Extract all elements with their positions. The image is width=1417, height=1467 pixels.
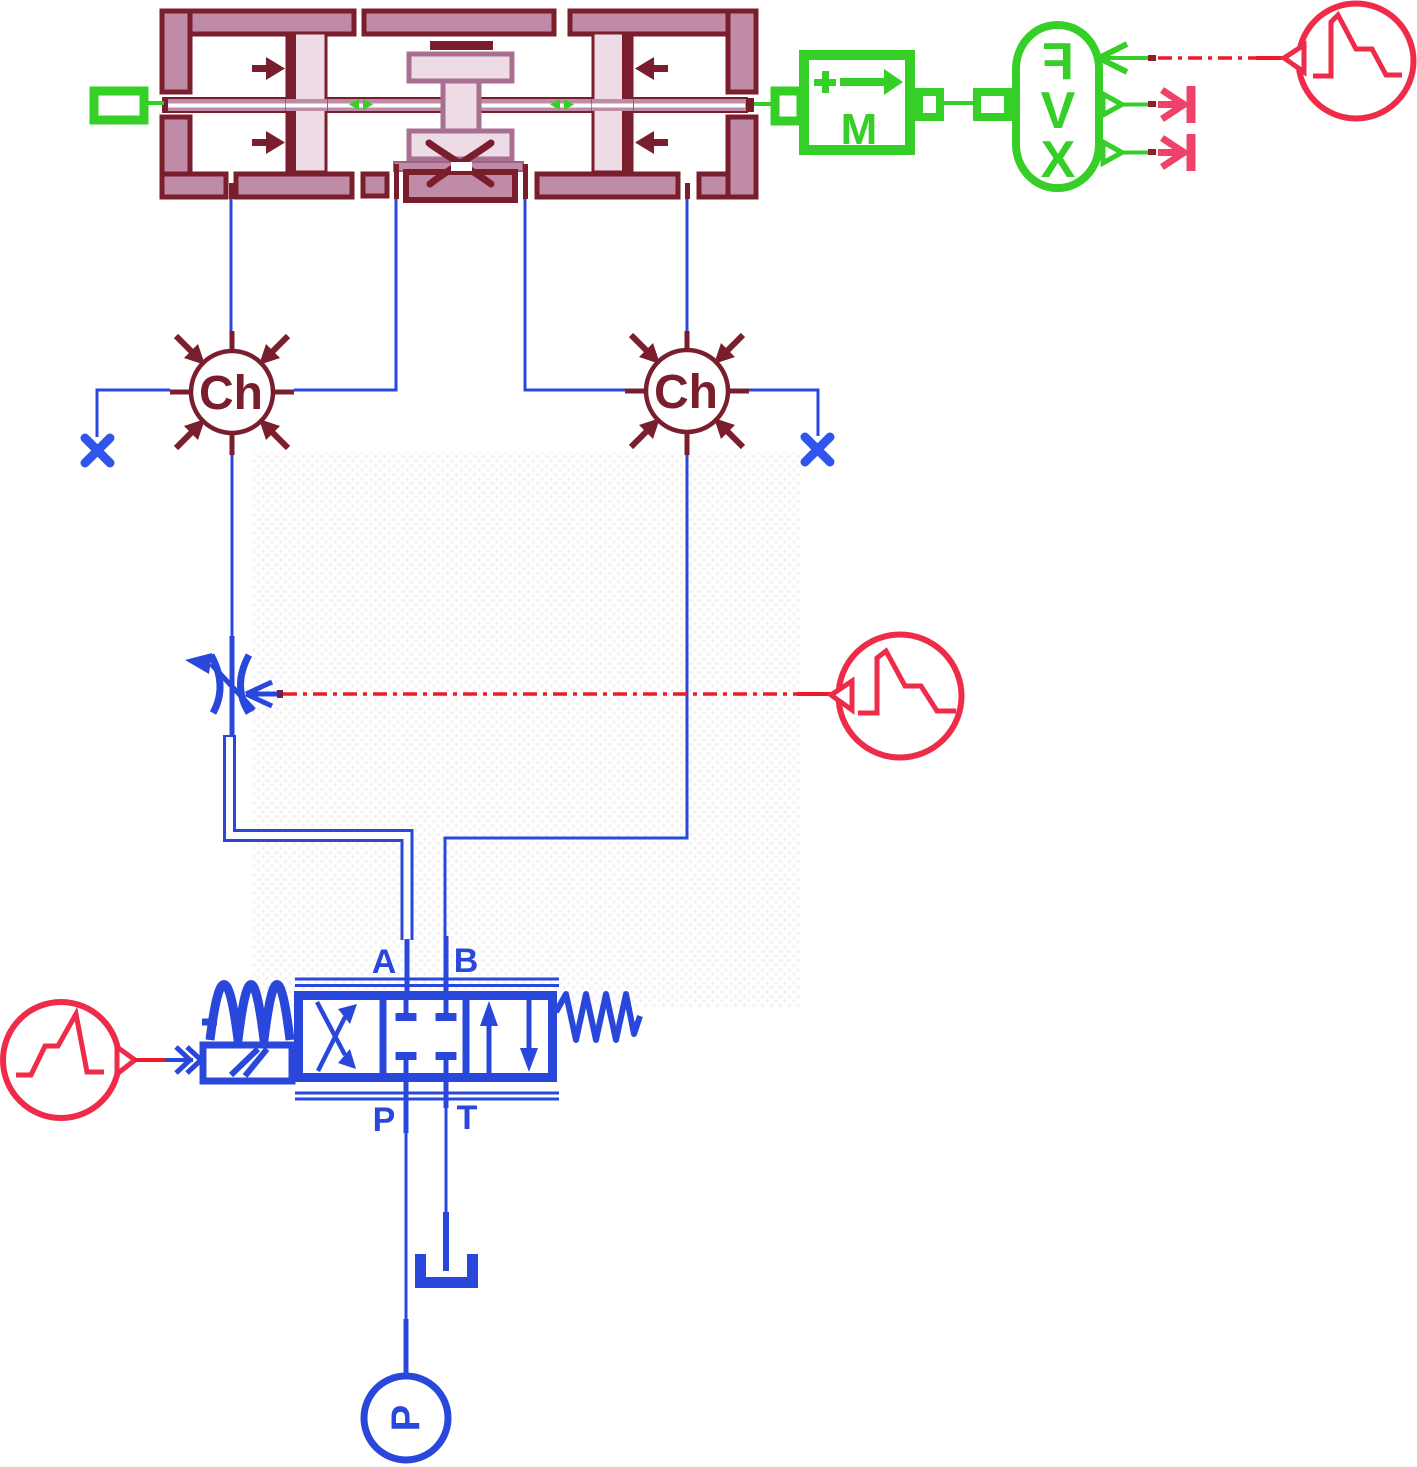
cylinder top wall left segment <box>162 11 354 34</box>
cylinder left wall upper <box>162 11 190 92</box>
valve left square crossed arrows <box>317 1002 357 1071</box>
chamber arrow right-lower <box>635 131 668 154</box>
green link line right <box>754 102 776 106</box>
svg-text:Ch: Ch <box>199 367 263 420</box>
throttle center line <box>230 636 235 737</box>
Ch2 corner arrows <box>631 335 743 447</box>
rod-spool link marker left (green) <box>349 99 373 110</box>
plus sign <box>814 79 836 86</box>
svg-text:Ch: Ch <box>654 366 718 419</box>
cylinder top wall center segment <box>364 11 554 34</box>
force signal dash-dot wire <box>1158 56 1286 60</box>
force input line <box>1103 56 1152 60</box>
wire T down from valve <box>444 1078 449 1271</box>
chamber arrow right-upper <box>635 57 668 80</box>
rod end cap right <box>747 98 754 112</box>
signal terminator arrow V (red) <box>1158 86 1191 123</box>
wire Ch2 right stub to plug <box>749 390 818 436</box>
piston rod left outer <box>163 98 287 112</box>
X output line <box>1122 151 1152 155</box>
wire port3 down and right to Ch2 left stub <box>525 199 640 390</box>
valve left spring <box>202 985 290 1041</box>
wire B thick end into valve <box>444 936 449 1014</box>
signal terminator arrow X (red) <box>1158 134 1191 171</box>
cylinder top wall right segment <box>570 11 755 34</box>
nozzle collector box <box>406 172 515 200</box>
wire A into valve <box>405 939 410 1014</box>
valve right square straight arrows <box>480 1000 538 1073</box>
V output port triangle <box>1103 94 1122 115</box>
wire port1 to chamber Ch1 <box>230 199 233 331</box>
cylinder port stub 1 <box>229 183 234 199</box>
mass block body <box>804 55 910 150</box>
X output port triangle <box>1103 142 1122 163</box>
central spool (I-beam flapper) <box>409 54 512 159</box>
rod-spool link marker right (green) <box>550 99 574 110</box>
pressure source P circle <box>364 1376 448 1460</box>
hydraulic plug left (blue X) <box>85 438 110 463</box>
wire Ch1 left stub to plug <box>97 390 170 437</box>
mass port stub right <box>919 92 940 117</box>
svg-text:P: P <box>373 1101 396 1139</box>
cylinder bottom wall center-right piece <box>537 174 678 197</box>
wire P down from valve <box>404 1078 409 1376</box>
cylinder bottom wall left piece b <box>236 174 352 197</box>
cylinder left wall lower <box>162 117 190 197</box>
svg-text:T: T <box>457 1099 478 1137</box>
force input arrowhead <box>1099 44 1127 72</box>
hydraulic plug right (blue X) <box>805 437 830 462</box>
left piston <box>287 33 326 172</box>
throttle signal dash-dot wire <box>283 692 833 696</box>
throttle source port triangle <box>831 681 852 710</box>
velocity arrow <box>840 78 886 86</box>
chamber arrow left-lower <box>252 131 285 154</box>
cylinder right wall upper <box>728 11 756 92</box>
throttle right arc <box>241 655 250 713</box>
nozzle cross curves <box>429 143 491 184</box>
nozzle pinch white gap <box>451 162 472 171</box>
piston rod left inner (piston to spool) <box>326 98 443 112</box>
cylinder bottom wall left piece a <box>162 174 226 197</box>
central spool stop bar <box>430 41 493 50</box>
rod end cap left <box>163 98 168 112</box>
svg-text:A: A <box>372 943 397 981</box>
svg-text:X: X <box>1041 131 1076 189</box>
piston rod right outer <box>632 98 747 112</box>
throttle variable arrow <box>211 664 254 710</box>
signal tip dark <box>277 690 283 698</box>
green link line left <box>148 101 164 105</box>
cylinder port stub 4 <box>685 183 690 199</box>
sensor port stub <box>977 92 1008 117</box>
valve body <box>299 996 553 1078</box>
svg-text:P: P <box>384 1405 428 1432</box>
displacement sensor square right (green) <box>775 91 801 121</box>
collector left channel edge <box>394 164 399 199</box>
throttle signal arrowhead <box>246 682 281 706</box>
displacement sensor square left (green) <box>94 91 144 120</box>
valve pilot box <box>203 1045 292 1081</box>
wire port4 to chamber Ch2 <box>686 199 689 331</box>
dark tip top <box>1148 55 1156 61</box>
V output line <box>1122 103 1152 107</box>
right piston <box>593 33 632 172</box>
sensor body <box>1016 25 1099 188</box>
Ch1 stubs <box>170 331 294 455</box>
valve infinite-position rails bottom <box>295 1093 559 1099</box>
rod passing over pistons <box>286 99 633 111</box>
wire port2 down and left to Ch1 right stub <box>294 199 396 390</box>
cylinder bottom wall small square <box>363 174 387 196</box>
chamber arrow left-upper <box>252 57 285 80</box>
throttle left arc <box>211 655 220 713</box>
valve source port triangle <box>117 1047 135 1074</box>
Ch1 circle <box>191 351 273 433</box>
pilot box slashes <box>231 1049 267 1076</box>
tank symbol <box>415 1254 478 1288</box>
background speckle watermark <box>253 452 801 1008</box>
pilot input arrow <box>163 1058 193 1062</box>
Ch2 stubs <box>625 331 749 455</box>
link line <box>944 101 974 105</box>
svg-text:B: B <box>454 942 479 980</box>
valve right spring <box>556 994 640 1040</box>
valve dividers <box>383 992 466 1081</box>
wire Ch2 bottom down, left, to valve port B <box>445 455 687 936</box>
dark tip bottom <box>1148 149 1156 155</box>
force source port triangle <box>1284 45 1304 72</box>
Ch1 corner arrows <box>176 336 288 448</box>
Ch2 circle <box>646 350 728 432</box>
dark tip middle <box>1148 101 1156 107</box>
nozzle collector bar <box>394 162 523 171</box>
cylinder bottom wall right piece <box>699 174 756 197</box>
piston rod right inner (spool to piston) <box>479 98 595 112</box>
throttle signal source circle (middle) <box>839 635 962 758</box>
force signal source circle (top right) <box>1299 4 1414 119</box>
svg-text:M: M <box>841 105 878 154</box>
wire Ch1 bottom to throttle <box>231 455 234 638</box>
valve signal red link <box>135 1058 165 1062</box>
valve center square blocked ports <box>396 995 457 1078</box>
valve infinite-position rails top <box>295 979 559 986</box>
collector right channel edge <box>523 164 528 199</box>
cylinder right wall lower <box>728 117 756 197</box>
valve signal source circle (bottom left, red) <box>3 1002 119 1118</box>
